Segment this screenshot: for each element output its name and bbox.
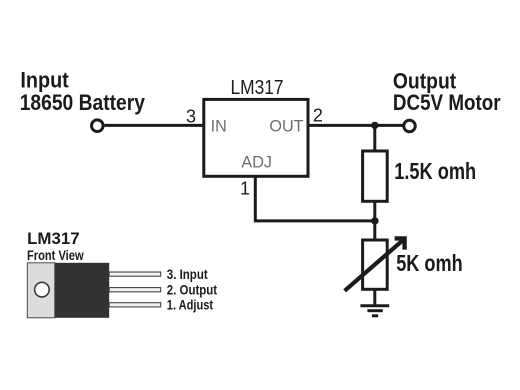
svg-text:5K omh: 5K omh (396, 250, 463, 276)
svg-text:2: 2 (313, 106, 323, 126)
svg-text:IN: IN (211, 118, 227, 136)
svg-text:ADJ: ADJ (241, 154, 272, 172)
svg-text:LM317: LM317 (231, 76, 284, 99)
svg-text:DC5V Motor: DC5V Motor (393, 90, 501, 115)
svg-text:1.5K omh: 1.5K omh (394, 158, 476, 184)
svg-text:1. Adjust: 1. Adjust (167, 298, 214, 313)
svg-text:3. Input: 3. Input (167, 267, 208, 282)
svg-text:3: 3 (186, 106, 196, 126)
svg-text:Front View: Front View (27, 248, 84, 263)
svg-text:2. Output: 2. Output (167, 282, 218, 297)
svg-text:OUT: OUT (269, 118, 303, 136)
svg-text:Input: Input (20, 67, 69, 92)
svg-text:1: 1 (240, 179, 250, 199)
svg-text:LM317: LM317 (27, 230, 80, 248)
svg-text:18650 Battery: 18650 Battery (20, 90, 146, 115)
